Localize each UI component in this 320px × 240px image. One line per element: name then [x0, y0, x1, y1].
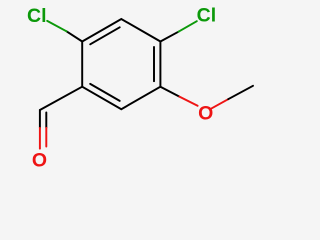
wire bond UR to Cl2 black half: [160, 32, 178, 42]
svg-text:Cl: Cl: [27, 5, 47, 27]
wire bond LR to O-ether black half: [160, 87, 179, 97]
wire C=O double bond main line red half: [39, 128, 41, 149]
wire C=O double bond second line red half: [45, 128, 47, 147]
svg-text:O: O: [32, 149, 47, 171]
wire inner aromatic line UR-LR: [153, 47, 155, 81]
wire C=O double bond main line black half: [39, 110, 41, 128]
wire bond UL to Cl1 black half: [67, 31, 83, 41]
svg-text:Cl: Cl: [197, 5, 217, 27]
wire C=O double bond second line black half: [45, 113, 47, 128]
svg-text:O: O: [198, 102, 213, 124]
wire bond UL to Cl1 green half: [47, 21, 66, 31]
wire bond UR to Cl2 green half: [179, 21, 197, 32]
wire inner aromatic line LL-B: [90, 84, 120, 101]
wire inner aromatic line UL-T: [90, 27, 120, 44]
wire bond LL to aldehyde C: [40, 87, 82, 110]
wire bond LR to O-ether red half: [179, 97, 197, 106]
wire bond O-ether to CH3 red half: [212, 99, 229, 108]
benzene ring outline: [82, 19, 160, 109]
wire bond O-ether to CH3 black half: [228, 86, 253, 99]
